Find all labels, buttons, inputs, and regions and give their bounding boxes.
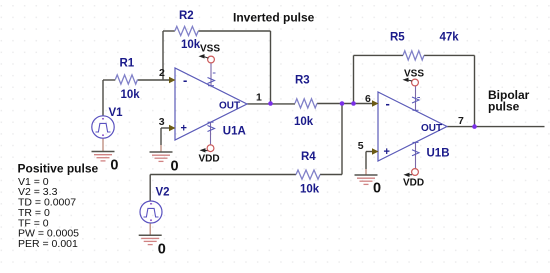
svg-text:0: 0 — [158, 241, 166, 257]
svg-text:R3: R3 — [295, 74, 310, 86]
svg-text:U1A: U1A — [223, 126, 246, 138]
svg-text:10k: 10k — [300, 184, 320, 196]
svg-text:Inverted pulse: Inverted pulse — [233, 10, 315, 24]
svg-text:VDD: VDD — [403, 178, 424, 189]
svg-text:pulse: pulse — [488, 100, 520, 114]
svg-text:0: 0 — [110, 157, 118, 173]
svg-text:0: 0 — [373, 181, 381, 197]
svg-text:10k: 10k — [181, 39, 201, 51]
svg-text:OUT: OUT — [421, 123, 442, 134]
svg-text:VDD: VDD — [199, 154, 220, 165]
svg-text:VSS: VSS — [200, 44, 220, 55]
svg-text:1: 1 — [256, 91, 262, 103]
svg-text:47k: 47k — [440, 32, 460, 44]
svg-text:R4: R4 — [301, 151, 316, 163]
svg-text:3: 3 — [159, 116, 165, 128]
svg-text:-: - — [183, 73, 187, 88]
svg-text:+: + — [181, 123, 187, 135]
svg-text:U1B: U1B — [427, 148, 450, 160]
svg-text:10k: 10k — [121, 89, 141, 101]
svg-text:+: + — [384, 146, 390, 158]
svg-text:V2: V2 — [156, 187, 170, 199]
svg-text:OUT: OUT — [219, 101, 240, 112]
svg-text:R5: R5 — [390, 32, 405, 44]
svg-text:V1: V1 — [109, 107, 124, 119]
svg-text:10k: 10k — [294, 116, 314, 128]
svg-text:7: 7 — [458, 115, 464, 127]
svg-text:R2: R2 — [179, 10, 194, 22]
svg-text:6: 6 — [365, 93, 371, 105]
svg-text:VSS: VSS — [404, 69, 424, 80]
svg-text:0: 0 — [171, 159, 179, 175]
svg-text:Positive pulse: Positive pulse — [18, 161, 99, 175]
svg-text:5: 5 — [358, 140, 364, 152]
svg-text:-: - — [386, 96, 390, 111]
svg-text:R1: R1 — [120, 58, 135, 70]
svg-text:PER = 0.001: PER = 0.001 — [18, 238, 78, 250]
svg-text:2: 2 — [159, 67, 165, 79]
